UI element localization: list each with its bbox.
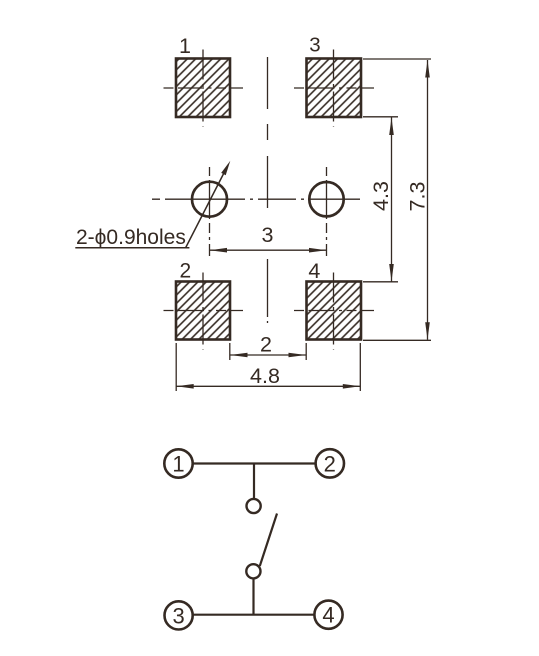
pad 2 vertical centerline [202,273,204,350]
svg-text:4.3: 4.3 [369,181,393,211]
wire down from movable contact to bottom [252,578,254,614]
pad 3 vertical centerline [333,50,335,127]
svg-text:2: 2 [260,333,272,357]
hole H2 vertical centerline [326,167,328,256]
pad 1 horizontal centerline [164,87,244,89]
svg-text:2: 2 [324,451,336,476]
hole H1 vertical centerline [209,167,211,256]
pad 3 (hatched square) [307,59,362,118]
hole H1 (left 0.9mm hole) [192,182,227,217]
pad 1 (hatched square) [176,59,230,118]
dimension "4.8" (overall width) [176,343,360,391]
movable contact circle (lower) [246,564,260,578]
svg-text:1: 1 [172,452,184,477]
svg-text:4: 4 [322,603,334,628]
extension line pad3 top [363,58,431,60]
svg-text:4: 4 [308,259,320,283]
svg-text:2: 2 [179,260,191,283]
dimension "2" (pad gap) [230,333,306,361]
svg-text:2-ϕ0.9holes: 2-ϕ0.9holes [76,226,186,249]
wire terminals 1-2 (top) [193,462,316,464]
pad 4 horizontal centerline [294,310,374,312]
pad 3 horizontal centerline [294,87,374,89]
central vertical axis (dash-dot) [267,57,269,323]
svg-text:3: 3 [262,223,274,247]
pad 2 horizontal centerline [164,310,244,312]
hole callout text "2-ϕ0.9holes" (underlined) [75,226,189,249]
dimension "4.3" (vertical) [369,118,394,282]
fixed contact circle (upper) [247,499,261,513]
svg-text:7.3: 7.3 [406,182,430,212]
pad 4 vertical centerline [333,273,335,350]
switch blade [260,514,277,567]
extension line pad4 top [363,281,398,283]
pad 1 vertical centerline [202,50,204,127]
terminal circle 2 [316,449,344,477]
wire down from top to fixed contact [253,464,255,500]
extension line pad4 bottom [363,339,431,341]
leader line for hole callout [186,161,231,248]
terminal circle 4 [314,601,342,629]
terminal circle 1 [164,449,192,477]
extension line pad3 bottom [363,116,398,118]
holes horizontal centerline [152,198,360,200]
svg-text:1: 1 [179,34,191,58]
wire terminals 3-4 (bottom) [193,614,315,616]
hole H2 (right 0.9mm hole) [309,182,343,216]
pad 4 (hatched square) [307,282,362,340]
svg-text:3: 3 [172,603,184,628]
svg-text:3: 3 [309,33,320,56]
svg-text:4.8: 4.8 [250,364,280,388]
dimension "7.3" (vertical overall) [406,60,430,340]
terminal circle 3 [165,601,193,629]
dimension "3" (hole spacing) [210,223,327,253]
pad 2 (hatched square) [176,282,230,340]
